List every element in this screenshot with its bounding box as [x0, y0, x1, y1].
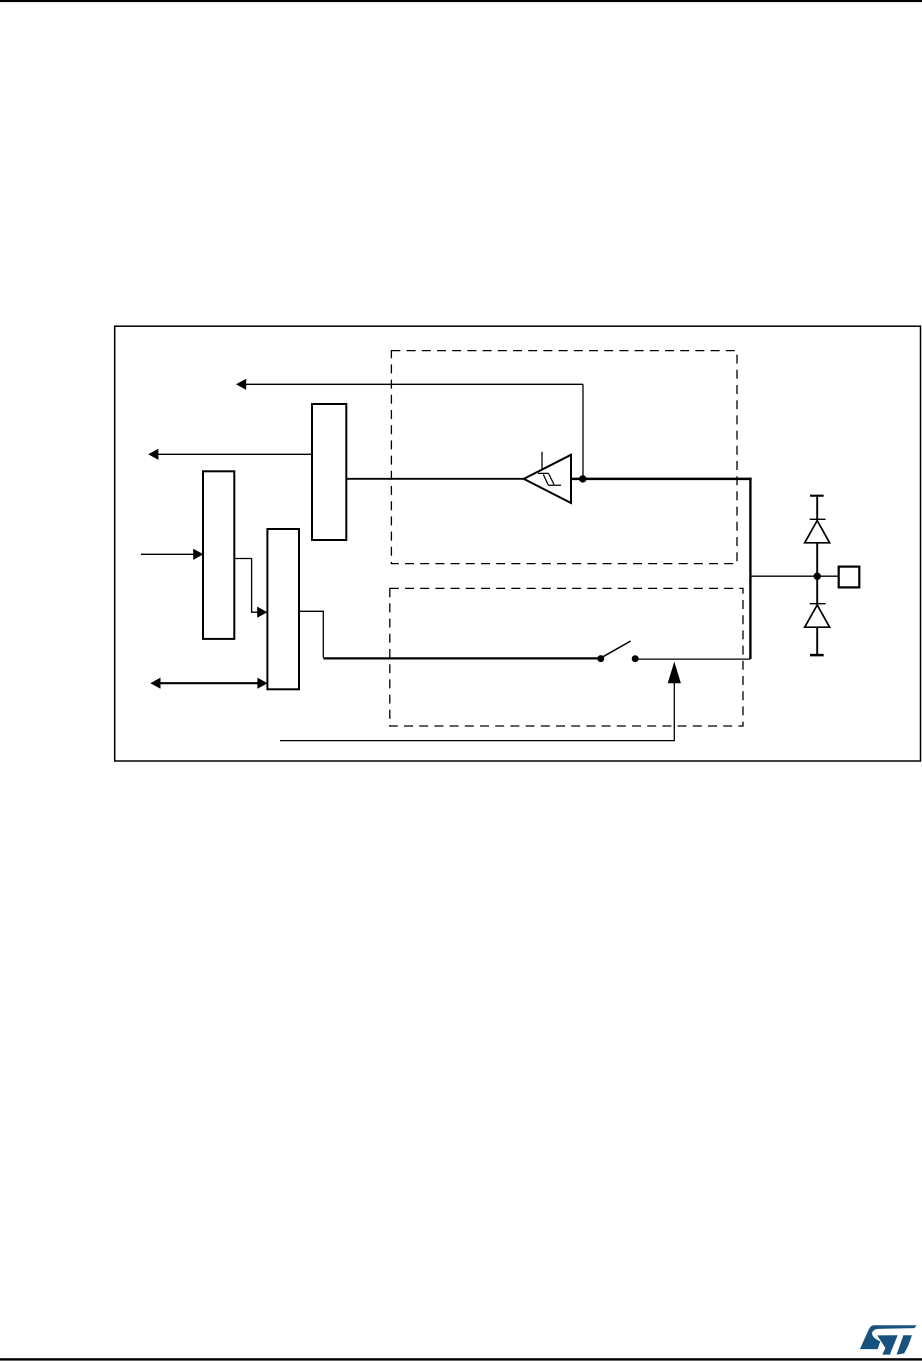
dashed box: input section: [391, 351, 737, 564]
ST logo: [860, 1325, 917, 1355]
top rule: [0, 0, 922, 2]
wire: vertical from bus 1 to comparator node: [582, 384, 584, 479]
wire: R2 to R3 step: [234, 559, 258, 613]
figure frame: [115, 326, 921, 761]
wire: data bus line 2: [156, 453, 312, 455]
wire rail to D1: [816, 496, 818, 520]
dashed box: output section: [390, 588, 743, 726]
wire: vertical trunk: [749, 478, 751, 659]
Schmitt input tick: [541, 452, 543, 469]
hysteresis glyph: [538, 473, 561, 485]
arrowhead bidir right: [257, 678, 267, 689]
wire: switch feed (thick): [323, 657, 598, 659]
wire: Schmitt to trunk (thick): [571, 478, 752, 481]
VSS rail tick: [810, 654, 824, 657]
arrowhead into R3: [257, 607, 267, 618]
diode D2: [805, 605, 830, 627]
junction dot at pad node: [814, 573, 821, 580]
arrowhead bus 2: [148, 449, 158, 460]
junction dot at comparator input node: [579, 475, 586, 482]
VDD rail tick: [810, 495, 824, 497]
wire D2 to VSS rail: [816, 627, 818, 655]
arrowhead bidir left: [150, 678, 160, 689]
control wire to switch: [280, 683, 674, 741]
diode D1: [805, 521, 830, 543]
wire: trunk to pad node: [750, 575, 838, 577]
wire: data bus line 3: [141, 553, 194, 555]
Schmitt trigger U1: [524, 455, 571, 503]
switch contact dot right: [632, 655, 639, 662]
arrowhead up to switch: [668, 662, 681, 684]
arrowhead bus 3: [193, 549, 203, 560]
wire: switch to trunk: [635, 658, 750, 660]
switch blade SW1: [602, 641, 631, 657]
wire: R3 to switch step: [299, 611, 323, 657]
wire: bidirectional data bus: [159, 682, 259, 684]
wire: data bus line 1: [244, 383, 583, 385]
diode D1 cathode bar: [810, 518, 826, 520]
wire D1 to node: [816, 543, 818, 604]
register block R3: [267, 529, 299, 689]
pad square: [839, 567, 860, 588]
register block R2: [203, 471, 234, 639]
switch contact dot left: [597, 655, 604, 662]
bottom rule: [0, 1358, 922, 1360]
diode D2 cathode bar: [810, 603, 826, 605]
register block R1: [312, 404, 346, 540]
arrowhead bus 1: [236, 379, 246, 390]
wire: R1 to Schmitt output: [346, 478, 524, 480]
